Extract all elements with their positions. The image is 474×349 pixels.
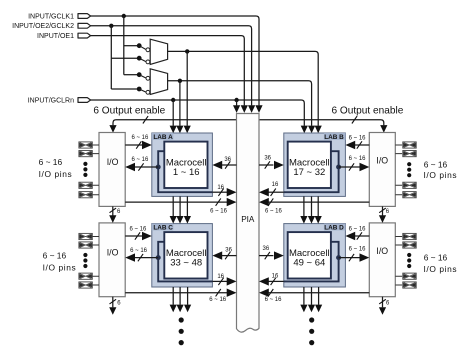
svg-text:INPUT/GCLRn: INPUT/GCLRn [28,97,74,104]
I/O block left bottom [99,223,125,297]
svg-text:I/O pins: I/O pins [39,169,73,179]
svg-text:6 ~ 16: 6 ~ 16 [43,251,67,261]
input pin INPUT/OE1 [37,33,91,40]
svg-text:I/O: I/O [107,157,119,167]
wire I/O1R to LAB B 6~16 [345,136,369,150]
ellipsis below LAB C [179,317,184,345]
I/O pins right bottom group [395,233,416,288]
svg-text:6 ~ 16: 6 ~ 16 [349,247,367,253]
svg-text:36: 36 [263,246,270,252]
wire GCLK1 to PIA [91,16,263,113]
PIA column [237,114,260,333]
svg-text:16: 16 [217,185,224,191]
I/O block left top [99,133,125,207]
svg-text:6 ~ 16: 6 ~ 16 [131,135,149,141]
wire mux2 output [168,81,316,133]
input pin INPUT/OE2/GCLK2 [12,23,90,30]
wire PIA to LAB C 36 [212,247,236,260]
wire output enable right [259,120,387,133]
wire I/O2R down 6 [379,297,390,315]
svg-text:16: 16 [217,274,224,280]
I/O pins right top group [395,142,416,198]
svg-text:6 ~ 16: 6 ~ 16 [39,157,63,167]
macrocell box LAB C [164,232,207,278]
mux 1 (clock mux) [150,39,167,64]
node macrocell D feedback [336,247,369,262]
wire I/O2L down 6 [109,297,121,315]
svg-text:I/O pins: I/O pins [424,264,458,274]
svg-text:36: 36 [225,247,232,253]
svg-text:16: 16 [272,182,279,188]
wire OE1 to PIA [91,36,248,113]
svg-text:I/O pins: I/O pins [424,170,458,180]
wire I/O2R to LAB D 6~16 [345,226,369,240]
wire GCLK2 to PIA [91,26,256,113]
svg-text:I/O: I/O [107,248,119,258]
wire PIA to LAB B 36 [259,156,284,170]
slash on output enable right [352,116,357,123]
node macrocell A feedback [125,157,161,171]
ellipsis below LAB D [309,317,314,345]
mux 2 (OE mux) [150,69,167,95]
svg-text:6 ~ 16: 6 ~ 16 [265,297,283,303]
label 6~16 I/O pins left top [39,157,73,179]
node macrocell C feedback [125,248,161,262]
LAB B shadow / 16 feedback [259,151,339,196]
svg-text:6 ~ 16: 6 ~ 16 [349,156,367,162]
svg-text:1 ~ 16: 1 ~ 16 [173,167,200,178]
svg-text:LAB C: LAB C [153,225,173,232]
wire output enable left [109,120,236,133]
svg-text:6 ~ 16: 6 ~ 16 [209,297,227,303]
wire I/O2R to PIA 6~16 [259,289,369,303]
svg-text:6 ~ 16: 6 ~ 16 [130,248,148,254]
LAB D box [284,224,346,287]
wires LAB D continuation [300,287,322,312]
wire mux1 output [168,51,322,133]
svg-text:6 ~ 16: 6 ~ 16 [131,157,149,163]
I/O pins left top group [79,142,99,198]
LAB A box [152,133,213,196]
wire I/O1R to PIA 6~16 [259,198,369,215]
I/O block right top [369,133,395,207]
wire I/O1 to LAB A 6~16 [125,135,152,149]
node GCLK2 branch [109,24,113,89]
node mux2 out to LAB A [176,79,183,134]
wire I/O2L to PIA 6~16 [125,289,236,303]
slash on output enable left [143,116,148,123]
wire PIA to LAB A 36 [212,157,236,169]
svg-text:16: 16 [272,273,279,279]
wire mux1 input 2 [111,56,150,64]
wire I/O1R to I/O2R 6 [379,206,390,223]
wire mux2 input 1 [124,72,150,80]
wire I/O1L to PIA 6~16 [125,198,236,215]
wire I/O1L to I/O2L 6 [109,206,121,223]
svg-text:INPUT/OE1: INPUT/OE1 [37,33,74,40]
svg-text:17 ~ 32: 17 ~ 32 [293,167,325,178]
wire PIA to LAB D 36 [259,246,284,260]
svg-text:6 Output enable: 6 Output enable [332,106,404,117]
svg-text:49 ~ 64: 49 ~ 64 [293,258,325,269]
svg-text:6 ~ 16: 6 ~ 16 [210,209,228,215]
svg-text:6 Output enable: 6 Output enable [93,106,165,117]
label 6~16 I/O pins left bottom [43,251,77,273]
svg-text:INPUT/OE2/GCLK2: INPUT/OE2/GCLK2 [12,23,74,30]
svg-text:6 ~ 16: 6 ~ 16 [129,227,147,233]
wires LAB C continuation [170,287,192,312]
macrocell box LAB A [164,142,207,188]
LAB A shadow / 16 feedback [158,151,236,196]
svg-text:I/O: I/O [376,246,388,256]
label 6~16 I/O pins right bottom [424,253,458,274]
node on GCLRn to PIA [233,98,240,113]
LAB D shadow / 16 feedback [259,242,339,286]
macrocell box LAB D [288,232,331,278]
input pin INPUT/GCLK1 [28,13,91,20]
node GCLRn to LAB A [170,98,177,133]
node macrocell B feedback [336,156,369,171]
svg-text:I/O: I/O [376,156,388,166]
LAB C box [152,224,213,287]
LAB B box [284,133,346,196]
wires LAB A to LAB C [170,196,191,223]
svg-text:6 ~ 16: 6 ~ 16 [349,226,367,232]
LAB C shadow / 16 feedback [158,242,236,286]
svg-text:6 ~ 16: 6 ~ 16 [424,160,448,170]
wires LAB B to LAB D [300,196,322,223]
svg-text:LAB D: LAB D [324,225,344,232]
macrocell box LAB B [288,142,331,188]
svg-text:36: 36 [264,156,271,162]
wire mux1 input 1 [124,43,150,51]
wire mux2 input 2 [111,87,150,95]
svg-text:33 ~ 48: 33 ~ 48 [170,258,202,269]
svg-text:6 ~ 16: 6 ~ 16 [349,136,367,142]
svg-text:6 ~ 16: 6 ~ 16 [424,253,448,263]
svg-text:I/O pins: I/O pins [43,263,77,273]
I/O block right bottom [369,223,395,297]
svg-text:LAB A: LAB A [153,134,173,141]
svg-text:PIA: PIA [241,215,255,224]
node GCLK1 branch [122,14,126,75]
wire I/O2L to LAB C 6~16 [125,227,152,241]
svg-text:6 ~ 16: 6 ~ 16 [265,209,283,215]
svg-text:36: 36 [224,157,231,163]
label 6~16 I/O pins right top [424,160,458,180]
I/O pins left bottom group [79,233,99,288]
wire GCLRn [91,100,308,133]
input pin INPUT/GCLRn [28,97,91,104]
svg-text:LAB B: LAB B [324,134,344,141]
node mux1 out to LAB A [184,49,191,133]
svg-text:INPUT/GCLK1: INPUT/GCLK1 [28,13,74,20]
